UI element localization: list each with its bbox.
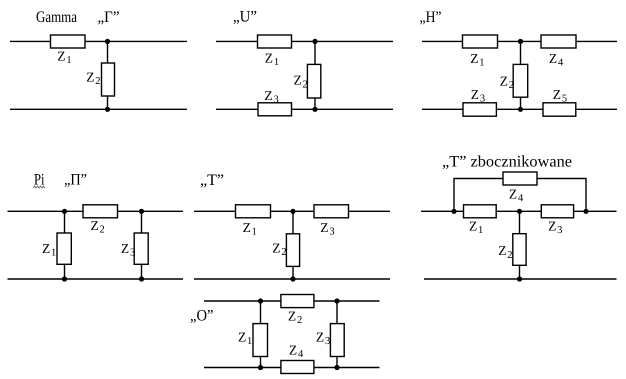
resistor Z4 (H) xyxy=(541,35,576,48)
wire: Gamma shunt branch xyxy=(107,41,109,109)
svg-text:„U”: „U” xyxy=(233,9,257,26)
wire: Pi bottom rail xyxy=(8,278,184,280)
resistor Z1 (Pi) xyxy=(57,233,71,264)
resistor Z1 (Gamma) xyxy=(51,35,86,48)
node: T bottom junction xyxy=(290,276,295,281)
node: Gamma bottom junction xyxy=(105,107,110,112)
resistor Z5 (H) xyxy=(543,103,576,116)
wire: U bottom rail xyxy=(216,108,393,110)
resistor Z3 (H) xyxy=(463,103,496,116)
resistor Z2 (Pi) xyxy=(83,205,118,218)
resistor Z2 (O) xyxy=(281,295,314,308)
spellcheck squiggle under Pi xyxy=(33,186,45,188)
node: Pi top-right junction xyxy=(139,209,144,214)
wire: U top rail xyxy=(216,40,393,42)
wire: Gamma bottom rail xyxy=(10,108,187,110)
resistor Z3 (U) xyxy=(258,103,292,116)
resistor Z1 (T zbocznikowane) xyxy=(464,205,497,218)
svg-text:„O”: „O” xyxy=(190,308,214,325)
wire: H top rail xyxy=(422,40,617,42)
node: U bottom junction xyxy=(312,107,317,112)
node: O top-left junction xyxy=(258,298,263,303)
node: H bottom junction xyxy=(518,107,523,112)
svg-text:„Γ”: „Γ” xyxy=(98,9,120,26)
svg-text:„H”: „H” xyxy=(420,9,442,26)
resistor Z1 (H) xyxy=(463,35,498,48)
wire: Gamma top rail xyxy=(10,40,187,42)
wire: Pi right shunt branch xyxy=(141,211,143,279)
svg-text:„Π”: „Π” xyxy=(64,172,87,189)
node: O bottom-left junction xyxy=(258,365,263,370)
wire: O left branch xyxy=(260,301,262,368)
wire: T bottom rail xyxy=(194,278,390,280)
wire: H shunt branch xyxy=(520,41,522,109)
node: bottom junction xyxy=(517,276,522,281)
svg-text:Gamma: Gamma xyxy=(36,9,77,26)
node: O top-right junction xyxy=(334,298,339,303)
node: Pi bottom-right junction xyxy=(139,276,144,281)
node: left junction xyxy=(451,209,456,214)
wire: T top rail xyxy=(194,210,390,212)
resistor Z3 (T) xyxy=(314,205,349,218)
wire: O bottom rail xyxy=(204,367,380,369)
node: H top junction xyxy=(518,39,523,44)
node: center junction xyxy=(517,209,522,214)
node: right junction xyxy=(583,209,588,214)
resistor Z2 (Gamma) xyxy=(102,63,115,96)
resistor Z3 (O) xyxy=(330,324,344,357)
resistor Z4 (O) xyxy=(281,361,314,374)
resistor Z4 (T zbocznikowane) xyxy=(503,172,537,185)
wire: Pi left shunt branch xyxy=(64,211,66,279)
svg-text:„T”: „T” xyxy=(200,172,224,189)
node: O bottom-right junction xyxy=(334,365,339,370)
wire: T zbocznikowane shunt branch xyxy=(519,211,521,279)
resistor Z2 (T) xyxy=(286,234,299,267)
resistor Z1 (U) xyxy=(258,35,292,48)
resistor Z3 (T zbocznikowane) xyxy=(541,205,573,218)
wire: U shunt branch xyxy=(314,41,316,109)
wire: T zbocznikowane top rail xyxy=(421,210,617,212)
resistor Z3 (Pi) xyxy=(134,233,148,264)
wire: bypass branch (left riser, top run, right riser) xyxy=(454,179,586,212)
wire: O top rail xyxy=(204,300,380,302)
resistor Z2 (T zbocznikowane) xyxy=(513,234,526,266)
node: U top junction xyxy=(312,39,317,44)
resistor Z2 (U) xyxy=(307,64,320,98)
node: Pi top-left junction xyxy=(62,209,67,214)
resistor Z2 (H) xyxy=(513,64,528,97)
wire: Pi top rail xyxy=(8,210,184,212)
wire: O right branch xyxy=(336,301,338,368)
wire: T shunt branch xyxy=(292,211,294,279)
resistor Z1 (O) xyxy=(253,324,268,357)
wire: T zbocznikowane bottom rail xyxy=(424,278,617,280)
node: Pi bottom-left junction xyxy=(62,276,67,281)
node: T top junction xyxy=(290,209,295,214)
wire: H bottom rail xyxy=(422,108,617,110)
resistor Z1 (T) xyxy=(236,205,271,218)
node: Gamma top junction xyxy=(105,39,110,44)
svg-text:„T” zbocznikowane: „T” zbocznikowane xyxy=(442,154,572,171)
